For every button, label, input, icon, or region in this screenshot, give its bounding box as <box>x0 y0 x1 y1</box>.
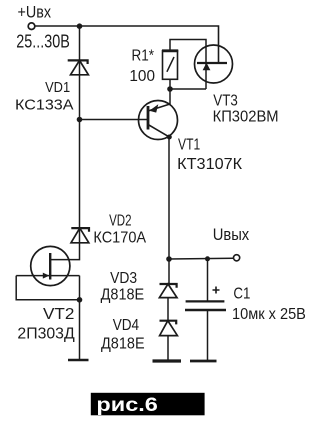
svg-text:рис.6: рис.6 <box>96 394 158 416</box>
svg-text:КС170А: КС170А <box>93 230 146 247</box>
svg-text:2П303Д: 2П303Д <box>17 326 74 343</box>
svg-text:Uвых: Uвых <box>213 225 250 244</box>
svg-text:10мк х 25В: 10мк х 25В <box>232 306 306 323</box>
svg-text:КТ3107К: КТ3107К <box>177 156 243 173</box>
svg-text:Д818Е: Д818Е <box>101 336 145 353</box>
svg-text:VD3: VD3 <box>110 270 137 287</box>
svg-text:+Uвх: +Uвх <box>18 2 52 21</box>
svg-text:VT3: VT3 <box>213 92 238 109</box>
svg-text:VD4: VD4 <box>113 317 139 334</box>
svg-text:R1*: R1* <box>132 48 155 65</box>
svg-text:100: 100 <box>129 68 155 85</box>
svg-text:КП302ВМ: КП302ВМ <box>213 109 279 126</box>
svg-text:VT1: VT1 <box>178 137 200 154</box>
svg-text:VD1: VD1 <box>45 79 70 96</box>
svg-text:VT2: VT2 <box>43 306 75 323</box>
svg-text:C1: C1 <box>233 285 250 302</box>
svg-text:25...30В: 25...30В <box>16 31 70 52</box>
svg-text:Д818Е: Д818Е <box>101 287 145 304</box>
svg-text:VD2: VD2 <box>109 212 131 229</box>
svg-text:КС133А: КС133А <box>15 96 74 113</box>
